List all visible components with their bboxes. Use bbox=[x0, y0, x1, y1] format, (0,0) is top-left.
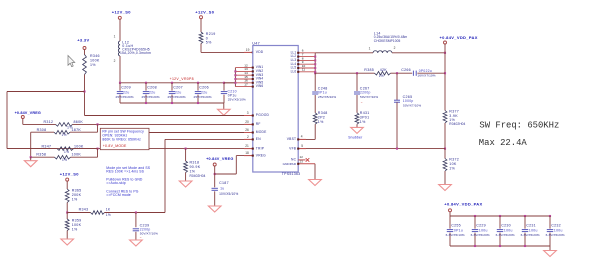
svg-text:10K: 10K bbox=[449, 162, 457, 166]
wire R219 to VDD pin bbox=[200, 44, 202, 53]
wire R346 to PGOOD row bbox=[84, 75, 86, 116]
svg-text:16V/X7/10%: 16V/X7/10% bbox=[417, 74, 435, 78]
svg-text:100u: 100u bbox=[554, 229, 563, 233]
svg-text:CHOKESMP1005: CHOKESMP1005 bbox=[374, 39, 401, 43]
svg-text:=>FCCM mode: =>FCCM mode bbox=[106, 193, 131, 197]
svg-text:R431: R431 bbox=[360, 111, 370, 115]
ground snubber bbox=[356, 124, 358, 127]
svg-text:3P01: 3P01 bbox=[360, 116, 370, 120]
svg-text:6.3V/X5/10%: 6.3V/X5/10% bbox=[446, 233, 465, 237]
svg-text:20: 20 bbox=[245, 120, 249, 124]
wire VFB row bbox=[298, 148, 445, 150]
svg-text:1%: 1% bbox=[62, 158, 67, 162]
capacitor C232 100u bbox=[549, 216, 551, 229]
svg-text:C231: C231 bbox=[526, 224, 536, 228]
svg-text:50V/X7/10%: 50V/X7/10% bbox=[360, 95, 378, 99]
svg-text:100K: 100K bbox=[74, 144, 84, 148]
power +3.3V bbox=[83, 47, 86, 50]
svg-text:50V/X7/10%: 50V/X7/10% bbox=[403, 104, 421, 108]
svg-text:R347: R347 bbox=[42, 144, 52, 148]
ground cap bank bbox=[549, 246, 551, 251]
svg-text:1%: 1% bbox=[449, 167, 455, 171]
svg-text:R365: R365 bbox=[72, 188, 82, 192]
resistor R343 1K bbox=[67, 212, 90, 214]
wire LL bus down to C248 bbox=[314, 73, 316, 91]
node MODE divider junction bbox=[96, 148, 98, 150]
svg-text:+12V_S0: +12V_S0 bbox=[60, 171, 79, 176]
capacitor C207 22u bbox=[171, 83, 173, 91]
svg-text:1%: 1% bbox=[318, 120, 324, 124]
svg-text:R219: R219 bbox=[206, 32, 216, 36]
svg-text:C229: C229 bbox=[476, 224, 486, 228]
svg-text:R359: R359 bbox=[72, 218, 82, 222]
capacitor C187 1u bbox=[214, 174, 216, 187]
power +0.84V_VDD_PAX (cap bank) bbox=[449, 209, 452, 212]
wire EN vertical up bbox=[164, 139, 166, 212]
wire caps bottom rail bbox=[120, 102, 224, 104]
wire EN row bbox=[165, 138, 253, 140]
svg-text:1000p: 1000p bbox=[403, 99, 414, 103]
svg-text:R0402H04: R0402H04 bbox=[449, 122, 465, 126]
note box RF frequency bbox=[100, 128, 149, 149]
svg-text:VREG: VREG bbox=[256, 153, 266, 157]
svg-text:100u: 100u bbox=[479, 229, 488, 233]
VIN bus vertical bbox=[234, 68, 236, 87]
svg-text:90.9K: 90.9K bbox=[190, 165, 201, 169]
ground R318 bbox=[185, 173, 187, 182]
wire VREG row bbox=[236, 155, 253, 157]
capacitor C266 0P022u bbox=[412, 71, 414, 76]
node R346 branch bbox=[83, 90, 85, 92]
wire left vertical x=7 bbox=[6, 92, 8, 149]
capacitor C229 100u bbox=[474, 216, 476, 229]
svg-text:EN: EN bbox=[256, 137, 261, 141]
wire LL bus to R385 bbox=[315, 72, 374, 74]
node RF/R308 junction bbox=[96, 123, 98, 125]
svg-text:18: 18 bbox=[245, 151, 249, 155]
svg-text:100u: 100u bbox=[504, 229, 513, 233]
svg-text:2: 2 bbox=[394, 46, 396, 50]
pin 2 EN bbox=[244, 138, 253, 140]
svg-text:1%: 1% bbox=[106, 213, 111, 217]
svg-text:R348: R348 bbox=[318, 111, 328, 115]
svg-text:Max 22.4A: Max 22.4A bbox=[479, 138, 528, 148]
pin 3 PGOOD bbox=[244, 115, 253, 117]
svg-text:3: 3 bbox=[247, 111, 249, 115]
pin 26 MODE bbox=[244, 132, 253, 134]
svg-text:C187: C187 bbox=[219, 181, 229, 185]
node C266 row junction bbox=[444, 72, 446, 74]
resistor R358 100K 1% bbox=[31, 156, 55, 158]
svg-text:+0.84V_VDD_PAX: +0.84V_VDD_PAX bbox=[440, 35, 478, 40]
svg-text:+0.84V_VREG: +0.84V_VREG bbox=[206, 157, 233, 161]
node output column top bbox=[444, 52, 446, 54]
node snubber junction bbox=[356, 72, 358, 74]
svg-text:1%: 1% bbox=[90, 63, 96, 67]
svg-text:26: 26 bbox=[245, 128, 249, 132]
wire PGOOD row bbox=[85, 115, 253, 117]
pin 16 VIN5 stub bbox=[235, 82, 252, 84]
svg-text:1K: 1K bbox=[106, 207, 111, 211]
svg-text:11: 11 bbox=[302, 68, 305, 72]
resistor R372 10K 1% bbox=[444, 149, 446, 159]
svg-text:RF: RF bbox=[256, 122, 261, 126]
svg-text:1%: 1% bbox=[379, 74, 384, 78]
node VREG/C187 junction bbox=[214, 173, 216, 175]
pin 5 VFB bbox=[298, 148, 306, 150]
resistor R308 187K bbox=[70, 131, 98, 133]
svg-text:0P1u: 0P1u bbox=[454, 229, 463, 233]
svg-text:R385: R385 bbox=[364, 68, 374, 72]
wire R377 to VFB node bbox=[444, 123, 446, 149]
node VFB junction bbox=[444, 148, 446, 150]
svg-text:10V/X5/10%: 10V/X5/10% bbox=[219, 192, 238, 196]
svg-text:19: 19 bbox=[246, 48, 250, 52]
resistor R318 90.9K 1% bbox=[184, 161, 188, 173]
svg-text:U47: U47 bbox=[252, 41, 260, 45]
ground GNDPAD bbox=[309, 180, 322, 186]
pin 7 LL2 stub bbox=[298, 56, 315, 58]
wire bank top rail bbox=[450, 215, 550, 217]
svg-text:+12V_VR0P8: +12V_VR0P8 bbox=[170, 77, 194, 81]
svg-text:SW Freq: 650KHz: SW Freq: 650KHz bbox=[479, 120, 559, 130]
ground R359 bbox=[66, 231, 68, 240]
svg-text:VDD: VDD bbox=[256, 50, 264, 54]
svg-text:6.3V/X5/20%: 6.3V/X5/20% bbox=[521, 233, 540, 237]
svg-text:C208: C208 bbox=[147, 86, 157, 90]
svg-text:1%: 1% bbox=[360, 120, 366, 124]
svg-text:17: 17 bbox=[244, 82, 248, 86]
wire +12V_S0 to R365 bbox=[66, 181, 68, 189]
pin 17 VIN6 stub bbox=[235, 86, 252, 88]
wire rail to VIN bus bbox=[224, 82, 235, 84]
svg-text:Snubber: Snubber bbox=[348, 136, 363, 140]
node R308/R358 ground junction bbox=[30, 156, 32, 158]
svg-text:1%: 1% bbox=[72, 197, 78, 201]
wire +3.3V down to R346 bbox=[84, 50, 86, 55]
svg-text:+0.8V_MODE: +0.8V_MODE bbox=[103, 144, 127, 148]
svg-text:42K: 42K bbox=[380, 68, 388, 72]
pin 18 VREG bbox=[244, 155, 253, 157]
svg-text:25V/X5/20%: 25V/X5/20% bbox=[142, 95, 160, 99]
svg-text:VFB: VFB bbox=[289, 146, 297, 150]
svg-text:22u: 22u bbox=[175, 91, 182, 95]
pin 13 VIN2 stub bbox=[235, 70, 252, 72]
resistor R219 0 5% bbox=[199, 32, 203, 44]
svg-text:VBST: VBST bbox=[287, 137, 296, 141]
wire R348 to VBST pin bbox=[314, 124, 316, 139]
wire R343 to EN vertical bbox=[105, 212, 166, 214]
svg-text:C232: C232 bbox=[551, 224, 561, 228]
wire R385 to C265 node bbox=[391, 72, 413, 74]
svg-text:5%: 5% bbox=[206, 41, 212, 45]
node EN divider junction bbox=[66, 211, 68, 213]
svg-text:R346: R346 bbox=[90, 54, 100, 58]
ground C239 bbox=[130, 240, 143, 246]
wire bank bottom rail bbox=[450, 245, 550, 247]
svg-text:25V/X5/20%: 25V/X5/20% bbox=[194, 95, 212, 99]
svg-text:C230: C230 bbox=[501, 224, 511, 228]
ground left divider bbox=[30, 157, 32, 161]
wire +12V_S0 to L12 bbox=[119, 19, 121, 41]
svg-text:C266: C266 bbox=[401, 68, 411, 72]
svg-text:C206: C206 bbox=[199, 86, 209, 90]
svg-text:22u: 22u bbox=[149, 91, 156, 95]
svg-text:R0402H04: R0402H04 bbox=[190, 174, 206, 178]
svg-text:C255: C255 bbox=[451, 224, 461, 228]
wire MODE row (from note box to pin) bbox=[149, 132, 253, 134]
resistor R359 100K 1% bbox=[66, 213, 68, 220]
svg-text:2: 2 bbox=[247, 135, 249, 139]
svg-text:1%: 1% bbox=[72, 227, 78, 231]
LL bus junction dots bbox=[314, 56, 316, 58]
wire R308 left down to ground column bbox=[30, 132, 32, 157]
svg-text:2: 2 bbox=[114, 59, 116, 63]
svg-text:25V/X5/20%: 25V/X5/20% bbox=[168, 95, 186, 99]
capacitor C208 22u bbox=[145, 83, 147, 91]
wire +12V_S0 to R219 bbox=[200, 19, 202, 32]
wire L12 to +12V rail bbox=[119, 56, 121, 83]
capacitor C210 0P1u bbox=[223, 83, 225, 91]
svg-text:22u: 22u bbox=[201, 91, 208, 95]
capacitor C255 0P1u bbox=[449, 216, 451, 229]
VIN bus junction dots bbox=[234, 70, 236, 72]
svg-text:R358: R358 bbox=[36, 153, 46, 157]
pin 19 VDD bbox=[244, 51, 253, 53]
svg-text:25V/X5/10%: 25V/X5/10% bbox=[228, 97, 246, 101]
power +12V_S0 (input) bbox=[118, 16, 121, 19]
resistor R385 42K 1% bbox=[375, 71, 391, 75]
pin 9 LL4 stub bbox=[298, 63, 315, 65]
svg-text:~: ~ bbox=[361, 100, 363, 104]
pin 21 TRIP bbox=[244, 148, 253, 150]
pin 22 NC no-connect bbox=[298, 159, 305, 161]
pin 8 LL3 stub bbox=[298, 59, 315, 61]
pin 23 GNDPAD bbox=[298, 163, 315, 165]
svg-text:~: ~ bbox=[140, 235, 142, 239]
bottom rail dots bbox=[145, 102, 147, 104]
svg-text:1%: 1% bbox=[62, 133, 67, 137]
svg-text:+3.3V: +3.3V bbox=[77, 37, 89, 42]
bank top rail dots bbox=[474, 215, 476, 217]
svg-text:+12V_S0: +12V_S0 bbox=[112, 9, 131, 14]
svg-text:R308: R308 bbox=[37, 128, 47, 132]
svg-text:6.3V/X5/20%: 6.3V/X5/20% bbox=[546, 233, 565, 237]
svg-text:6.3V/X5/20%: 6.3V/X5/20% bbox=[471, 233, 490, 237]
capacitor C209 22u bbox=[119, 83, 121, 91]
capacitor C267 2200p bbox=[354, 91, 360, 93]
pin 10 LL5 stub bbox=[298, 67, 315, 69]
inductor L12 0.1uH bbox=[118, 41, 120, 56]
svg-text:C209: C209 bbox=[121, 86, 131, 90]
svg-text:187K: 187K bbox=[72, 128, 82, 132]
wire snubber down from row bbox=[356, 73, 358, 91]
power +0.84V_VDD_PAX (top) bbox=[444, 41, 447, 44]
svg-text:LL6: LL6 bbox=[291, 69, 297, 73]
capacitor C230 100u bbox=[499, 216, 501, 229]
net +0.84V_VREG (left) bbox=[21, 116, 24, 119]
wire R308 up to RF row bbox=[97, 124, 99, 132]
svg-text:1: 1 bbox=[369, 46, 371, 50]
power +12V_S0 (EN) bbox=[66, 178, 69, 181]
svg-text:15A,20%,0.3mohm: 15A,20%,0.3mohm bbox=[120, 51, 151, 55]
svg-text:+12V_S0: +12V_S0 bbox=[195, 9, 214, 14]
wire VREG down and left to C187 node bbox=[235, 156, 237, 174]
node C265 junction bbox=[396, 72, 398, 74]
rail junction dots bbox=[119, 82, 121, 84]
svg-text:4: 4 bbox=[301, 135, 303, 139]
pin 15 VIN4 stub bbox=[235, 78, 252, 80]
wire branch left at y=91.5 bbox=[7, 91, 85, 93]
pin 4 VBST bbox=[298, 138, 306, 140]
pin 20 RF bbox=[244, 123, 253, 125]
resistor R377 3.9K 1% bbox=[443, 111, 447, 124]
svg-text:R372: R372 bbox=[449, 158, 459, 162]
capacitor C265 1000p bbox=[396, 73, 398, 100]
capacitor C231 100u bbox=[524, 216, 526, 229]
svg-text:6.3V/X5/20%: 6.3V/X5/20% bbox=[496, 233, 515, 237]
ground C187 bbox=[208, 206, 221, 212]
svg-text:50V/X7/10%: 50V/X7/10% bbox=[140, 232, 158, 236]
resistor R348 2P2 1% bbox=[313, 113, 317, 124]
wire LL node to L14 bbox=[315, 52, 373, 54]
svg-text:=>Auto-skip: =>Auto-skip bbox=[106, 181, 125, 185]
svg-text:C207: C207 bbox=[173, 86, 183, 90]
svg-text:RES 100K =>1.4ms SS: RES 100K =>1.4ms SS bbox=[106, 170, 144, 174]
svg-text:TRIP: TRIP bbox=[256, 146, 265, 150]
svg-text:860K: 860K bbox=[74, 120, 84, 124]
svg-text:R318: R318 bbox=[190, 161, 200, 165]
resistor R346 100K 1% bbox=[83, 55, 87, 75]
pin 11 LL6 stub bbox=[298, 71, 315, 73]
node C265 bottom junction bbox=[396, 148, 398, 150]
svg-text:PGOOD: PGOOD bbox=[256, 113, 270, 117]
net +0.84V_VREG (at VREG pin) bbox=[213, 163, 216, 166]
ground R372 bbox=[444, 171, 446, 185]
svg-text:+0.84V_VREG: +0.84V_VREG bbox=[15, 111, 41, 115]
wire C266 to output column bbox=[417, 72, 445, 74]
wire TRIP/+0.8V_MODE row bbox=[7, 148, 253, 150]
resistor R365 200K 1% bbox=[65, 189, 69, 203]
svg-text:VIN6: VIN6 bbox=[256, 84, 264, 88]
wire output column down bbox=[444, 53, 446, 111]
svg-text:1u: 1u bbox=[220, 187, 224, 191]
svg-text:1: 1 bbox=[114, 35, 116, 39]
svg-text:100K: 100K bbox=[72, 153, 82, 157]
mouse cursor bbox=[68, 56, 75, 67]
capacitor C206 22u bbox=[197, 83, 199, 91]
svg-text:R343: R343 bbox=[79, 208, 89, 212]
resistor R347 100K 1% bbox=[7, 148, 57, 150]
pin 14 VIN3 stub bbox=[235, 74, 252, 76]
svg-text:5: 5 bbox=[301, 144, 303, 148]
wire L14 to output node bbox=[392, 52, 445, 54]
svg-text:0P022u: 0P022u bbox=[419, 69, 432, 73]
wire TRIP junction down to R318 bbox=[185, 149, 187, 161]
svg-text:25V/X5/20%: 25V/X5/20% bbox=[116, 95, 134, 99]
svg-text:+0.84V_VDD_PAX: +0.84V_VDD_PAX bbox=[444, 202, 482, 207]
net +12V_VR0P8 rail bbox=[120, 82, 235, 84]
wire VREG node to R312 bbox=[22, 119, 24, 125]
pin 12 VIN1 stub bbox=[235, 67, 252, 69]
svg-text:GNDPAD: GNDPAD bbox=[283, 162, 297, 166]
svg-text:100K: 100K bbox=[72, 223, 82, 227]
svg-text:22: 22 bbox=[300, 155, 304, 159]
ground top cap bank bbox=[223, 103, 225, 109]
wire R358 up to junction bbox=[97, 149, 99, 158]
wire GNDPAD down bbox=[314, 164, 316, 180]
wire R312 to RF pin row bbox=[73, 123, 253, 125]
svg-text:100u: 100u bbox=[529, 229, 538, 233]
svg-text:R312: R312 bbox=[44, 120, 54, 124]
svg-text:22u: 22u bbox=[123, 91, 130, 95]
power +12V_S0 (VDD) bbox=[200, 16, 203, 19]
capacitor C248 0P1u bbox=[312, 91, 318, 93]
capacitor C239 2200p bbox=[135, 213, 137, 228]
inductor L14 0.25u bbox=[373, 51, 392, 53]
wire node to bank rail bbox=[449, 212, 451, 216]
svg-text:1%: 1% bbox=[64, 150, 69, 154]
wire R365 to junction bbox=[66, 203, 68, 213]
svg-text:TPS51363: TPS51363 bbox=[282, 172, 301, 176]
op-amp U47 TPS51363 regulator IC body bbox=[253, 46, 298, 173]
node C239 junction bbox=[135, 211, 137, 213]
resistor R312 860K 1% bbox=[56, 123, 73, 127]
svg-text:21: 21 bbox=[245, 144, 249, 148]
pin 6 LL1 stub bbox=[298, 52, 315, 54]
svg-text:23: 23 bbox=[300, 160, 304, 164]
svg-text:MODE: MODE bbox=[256, 130, 267, 134]
svg-text:100K: 100K bbox=[90, 58, 100, 62]
node R318 junction bbox=[185, 148, 187, 150]
bank bottom rail dots bbox=[474, 245, 476, 247]
LL bus vertical bbox=[314, 53, 316, 73]
svg-text:860K to VREG: 650KHz: 860K to VREG: 650KHz bbox=[102, 137, 141, 141]
svg-text:200K: 200K bbox=[72, 193, 82, 197]
svg-text:2P2: 2P2 bbox=[318, 116, 325, 120]
resistor R431 3P01 1% bbox=[355, 113, 359, 124]
svg-text:25V/X5/10%: 25V/X5/10% bbox=[318, 95, 336, 99]
